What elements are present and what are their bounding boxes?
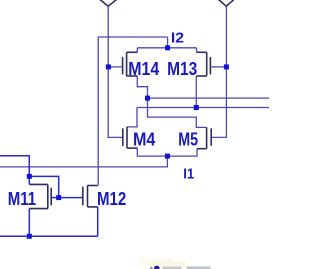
label M13 bbox=[167, 59, 197, 79]
transistor M4 bbox=[123, 127, 138, 148]
wire M12 source drop bbox=[97, 207, 99, 236]
wire M11 drain net from left edge bbox=[0, 156, 29, 185]
wire M5 source tail to node I1 bbox=[167, 149, 197, 156]
transistor M13 bbox=[196, 52, 210, 76]
node M13 gate junction bbox=[224, 64, 229, 69]
wire M14 drain stub bbox=[136, 48, 138, 53]
label M4 bbox=[133, 130, 156, 150]
wire line A (net out1) bbox=[148, 97, 270, 99]
wire right diamond down to M13 gate and M5 gate bbox=[212, 6, 227, 137]
node I1 junction bbox=[165, 154, 170, 159]
label I1 bbox=[183, 166, 194, 183]
node M11 drain-gate junction bbox=[27, 174, 32, 179]
wire M11 gate tie to M12 gate bbox=[29, 176, 58, 197]
label I2 bbox=[171, 30, 184, 47]
transistor M11 bbox=[29, 184, 51, 208]
wire node I1 down to left rail bbox=[0, 156, 167, 167]
wire M13 gate lead bbox=[212, 66, 227, 68]
svg-text:M12: M12 bbox=[97, 189, 126, 209]
transistor M12 bbox=[83, 186, 98, 207]
wire M13 drain stub bbox=[196, 48, 198, 53]
wire M14 gate lead bbox=[108, 66, 121, 68]
node A junction (M14 source / M5 drain) bbox=[145, 96, 150, 101]
wire M4 source tail to node I1 bbox=[137, 148, 167, 156]
svg-text:M13: M13 bbox=[167, 59, 197, 79]
wire M11 gate lead bbox=[52, 197, 59, 199]
wire M13 source down to node B bbox=[195, 76, 197, 108]
wire M12 gate lead bbox=[59, 197, 82, 199]
partial caption highlight at bottom edge bbox=[140, 258, 186, 267]
node B junction (M13 source / M4 drain) bbox=[194, 105, 199, 110]
svg-text:I1: I1 bbox=[183, 166, 194, 183]
wire bottom rail bbox=[0, 235, 98, 237]
wire line B (net out2) bbox=[137, 107, 269, 109]
label M5 bbox=[178, 130, 198, 150]
wire line C from node A down to M5 drain bbox=[148, 98, 207, 127]
node M11/M12 gate junction bbox=[56, 195, 61, 200]
wire net I2 left vertical to M12 drain bbox=[98, 37, 167, 186]
svg-text:M14: M14 bbox=[128, 59, 160, 79]
label M11 bbox=[8, 189, 36, 209]
partial caption glyph tops at bottom edge bbox=[150, 266, 211, 269]
svg-text:M5: M5 bbox=[178, 130, 198, 150]
node M11 source rail junction bbox=[27, 234, 32, 239]
wire net I2 rail bbox=[137, 47, 196, 49]
transistor M14 bbox=[123, 52, 138, 76]
svg-text:M4: M4 bbox=[133, 130, 156, 150]
transistor M5 bbox=[197, 127, 211, 148]
wire net I2 jog down bbox=[167, 37, 169, 48]
label M14 bbox=[128, 59, 160, 79]
wire left diamond down to M14 gate and M4 gate bbox=[108, 6, 122, 137]
svg-text:M11: M11 bbox=[8, 189, 36, 209]
node M14 gate junction bbox=[106, 64, 111, 69]
label M12 bbox=[97, 189, 126, 209]
wire M11 source drop bbox=[28, 209, 30, 237]
node I2 junction bbox=[165, 45, 170, 50]
wire M14 source jog to node A bbox=[137, 76, 147, 98]
current source symbol (right diamond) bbox=[218, 0, 235, 6]
svg-text:I2: I2 bbox=[171, 30, 184, 47]
current source symbol (left diamond) bbox=[99, 0, 117, 6]
wire M4 drain up to line B bbox=[127, 108, 137, 127]
